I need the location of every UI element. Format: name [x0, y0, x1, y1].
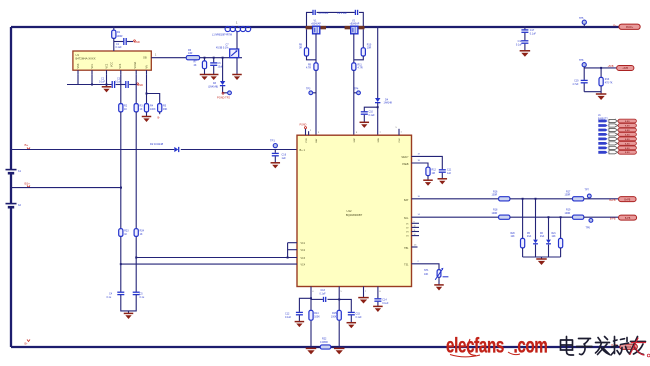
net label +5VB — [608, 65, 614, 68]
svg-text:B1+: B1+ — [25, 182, 31, 186]
ground below C14 — [373, 306, 383, 312]
svg-text:C19: C19 — [574, 79, 579, 82]
svg-text:R14: R14 — [314, 312, 319, 315]
resistor R12 1M — [426, 167, 437, 180]
wire inductor tap — [236, 26, 238, 49]
svg-text:C8 0.1uF: C8 0.1uF — [319, 12, 329, 15]
ground below pin GND — [358, 298, 369, 304]
ground below U1 — [102, 85, 112, 93]
svg-text:GND: GND — [134, 40, 140, 44]
U2 nc pin stubs — [406, 222, 419, 238]
svg-text:+5VB: +5VB — [608, 65, 614, 68]
svg-text:4.7R: 4.7R — [306, 67, 311, 70]
svg-text:B-PB: B-PB — [610, 218, 616, 221]
svg-text:TP3: TP3 — [306, 88, 311, 91]
svg-text:470-7K: 470-7K — [605, 82, 613, 85]
svg-text:0.1u: 0.1u — [107, 296, 112, 299]
testpoint TP4 — [354, 88, 361, 95]
svg-text:TP6: TP6 — [586, 227, 591, 230]
resistor R23 1K — [119, 229, 130, 237]
capacitor C15 0.1uF — [338, 298, 362, 322]
svg-text:R11: R11 — [358, 63, 363, 66]
battery B2 — [6, 203, 22, 207]
connector J1 block — [598, 113, 636, 154]
capacitor C9 0.1uF — [337, 10, 358, 15]
svg-text:B+PB: B+PB — [624, 199, 630, 201]
testpoint TP1 — [270, 139, 277, 148]
svg-text:0.1uF: 0.1uF — [285, 316, 292, 319]
U2 left pin B+ — [300, 148, 306, 152]
resistor R2 1K — [119, 75, 128, 112]
ground below C11 — [438, 179, 448, 185]
svg-text:VCC: VCC — [111, 62, 114, 67]
transistor V2 — [345, 19, 365, 33]
svg-text:49K: 49K — [163, 108, 168, 111]
capacitor C18 0.1uF — [516, 33, 529, 51]
svg-text:100R: 100R — [492, 212, 498, 215]
svg-text:9: 9 — [414, 222, 415, 224]
svg-text:1K: 1K — [140, 108, 143, 111]
svg-text:C12: C12 — [285, 312, 290, 315]
svg-text:R20: R20 — [511, 233, 516, 235]
svg-text:B-: B- — [158, 116, 161, 120]
diode D6 Z1A — [540, 217, 551, 257]
ground below C16 — [271, 163, 281, 169]
diode D2 1N4148 — [150, 142, 179, 152]
net label B+PB — [609, 199, 616, 202]
svg-text:12K: 12K — [552, 236, 557, 238]
svg-text:10: 10 — [414, 226, 416, 228]
ground network — [536, 259, 547, 265]
net label B+ — [25, 143, 31, 150]
U2 pin BAT wire — [404, 196, 499, 202]
connector P2 B-PB — [619, 215, 637, 220]
ground below R7 — [200, 75, 210, 81]
svg-text:B-BB: B-BB — [625, 134, 630, 136]
svg-text:TP8: TP8 — [579, 59, 584, 62]
wire R2 column — [120, 112, 122, 292]
testpoint TP3 — [306, 88, 316, 95]
svg-text:1K: 1K — [140, 233, 143, 236]
ground at rail left — [306, 348, 317, 354]
U1 pin stubs — [78, 70, 147, 75]
svg-text:VN: VN — [146, 65, 149, 69]
svg-text:B+ 1: B+ 1 — [300, 148, 306, 152]
resistor R21 12K — [552, 217, 563, 257]
capacitor C10 0.1uF — [361, 106, 379, 122]
svg-text:VC3: VC3 — [301, 258, 306, 260]
svg-text:CLK: CLK — [399, 138, 401, 143]
resistor R3 1K — [134, 75, 143, 112]
svg-text:TP7: TP7 — [585, 188, 590, 191]
net label B-PB — [610, 218, 616, 221]
capacitor C2 0.1uF — [99, 78, 125, 89]
svg-text:VDDA: VDDA — [134, 61, 137, 68]
svg-text:B-BB: B-BB — [625, 139, 630, 141]
U2 left pin names Y — [301, 243, 306, 266]
ground below C15 — [347, 323, 357, 329]
svg-text:PGND TP2: PGND TP2 — [217, 96, 230, 100]
wire U2 pin GND — [364, 287, 368, 298]
svg-text:R10: R10 — [367, 43, 372, 46]
svg-text:TP4: TP4 — [354, 88, 359, 91]
resistor R14 100K — [309, 310, 320, 320]
U2 pin SCL wire — [404, 214, 499, 220]
resistor R15 100K — [331, 310, 341, 320]
svg-text:0.1uF: 0.1uF — [116, 46, 123, 49]
svg-text:VSS: VSS — [77, 63, 80, 68]
svg-text:11: 11 — [414, 230, 416, 232]
svg-text:0.1uF: 0.1uF — [369, 114, 376, 117]
U1 pin names — [77, 57, 149, 69]
ground below R4 — [142, 117, 152, 123]
watermark chinese characters — [561, 337, 650, 357]
resistor R18 100R — [492, 209, 510, 220]
capacitor C17 0.1uF — [521, 26, 536, 35]
capacitor C13 0.1uF — [311, 289, 339, 302]
svg-text:BQ20Z90DBT: BQ20Z90DBT — [346, 213, 363, 217]
wire network bottom — [523, 257, 561, 259]
resistor R13 4.7K — [599, 68, 613, 94]
watermark elecfans.com — [446, 333, 547, 357]
svg-text:VC2: VC2 — [301, 250, 306, 252]
svg-text:1uF: 1uF — [282, 157, 287, 160]
connector P1 B+PB — [619, 197, 637, 202]
capacitor C16 — [272, 150, 287, 163]
svg-text:R23: R23 — [124, 230, 129, 233]
connector P4 5VB — [617, 66, 634, 71]
svg-text:SCL: SCL — [404, 217, 409, 220]
svg-text:100R: 100R — [492, 194, 498, 197]
svg-text:GND: GND — [137, 83, 143, 87]
wire VC1 VC2 — [287, 243, 297, 259]
svg-text:0.1uF: 0.1uF — [530, 32, 537, 35]
resistor R10 10R — [354, 29, 372, 60]
svg-text:100R: 100R — [565, 194, 571, 197]
capacitor C8 0.1uF — [313, 10, 329, 15]
svg-text:R24: R24 — [140, 230, 145, 233]
wire C19 to gnd — [584, 91, 601, 93]
svg-text:TS1: TS1 — [404, 264, 409, 267]
wire U1 decoupling row — [67, 75, 112, 86]
svg-text:0.1uF: 0.1uF — [99, 81, 106, 84]
svg-text:10R: 10R — [188, 52, 193, 55]
svg-text:100K: 100K — [331, 316, 337, 319]
diode D3 1N4148 — [208, 58, 225, 89]
capacitor C11 1uF — [439, 169, 452, 179]
ground below F1 — [232, 58, 242, 80]
svg-text:P+: P+ — [613, 23, 617, 27]
svg-text:SRN: SRN — [378, 137, 380, 142]
thermistor NT1 10K — [424, 268, 448, 280]
capacitor C6 10uF — [210, 58, 223, 75]
wire VC3 line — [136, 257, 297, 259]
U2 pin SDAI — [401, 154, 442, 170]
capacitor C14 0.1uF — [374, 287, 389, 307]
testpoint TP5 — [579, 17, 586, 27]
ground below C12 — [295, 322, 305, 328]
wire U2 pin VSS1 — [311, 287, 314, 348]
U2 top pin names — [306, 137, 401, 142]
svg-text:4.7uF: 4.7uF — [572, 83, 579, 86]
svg-text:PGND: PGND — [300, 123, 307, 126]
svg-text:C11: C11 — [447, 169, 452, 172]
svg-text:B-: B- — [25, 342, 28, 346]
transistor V1 — [306, 19, 326, 33]
svg-text:B-BB: B-BB — [625, 121, 630, 123]
svg-text:1K: 1K — [124, 233, 127, 236]
resistor R16 100R — [492, 190, 510, 201]
wire SCL mid — [510, 216, 573, 218]
svg-text:B-BB: B-BB — [625, 143, 630, 145]
wire caps to ground — [121, 295, 136, 311]
svg-text:B-BB: B-BB — [625, 125, 630, 127]
resistor R11 4.7R — [352, 34, 363, 135]
svg-text:1N4148: 1N4148 — [384, 102, 393, 105]
svg-text:NT1: NT1 — [424, 269, 429, 272]
resistor R17 100R — [565, 190, 584, 201]
svg-text:BAT: BAT — [404, 199, 409, 202]
svg-text:R16: R16 — [493, 190, 498, 193]
resistor R20 12K — [511, 199, 525, 257]
U2 pin stub CLK — [396, 127, 403, 135]
svg-text:2K: 2K — [194, 64, 197, 67]
ground below NT1 — [434, 277, 444, 290]
ground below C10 — [360, 122, 370, 128]
svg-text:R19: R19 — [566, 209, 571, 212]
U2 pin PAEB — [402, 160, 428, 167]
wire bottom rail B- — [11, 346, 620, 348]
svg-text:12K: 12K — [511, 236, 516, 238]
capacitor C5 0.1uF — [133, 292, 145, 299]
svg-text:VC3: VC3 — [119, 63, 122, 68]
svg-text:1uF: 1uF — [447, 172, 452, 175]
ground 5V sub — [596, 94, 607, 100]
svg-text:SRP: SRP — [354, 137, 356, 142]
svg-text:R18: R18 — [493, 209, 498, 212]
svg-text:0.1uF: 0.1uF — [356, 316, 363, 319]
svg-text:SDA1*: SDA1* — [401, 156, 408, 159]
svg-text:VC1: VC1 — [91, 63, 94, 68]
svg-text:VC4: VC4 — [301, 264, 306, 266]
resistor R1 100R — [112, 26, 123, 51]
U2 top pin numbers — [318, 132, 382, 134]
net label GND at C3 — [137, 83, 143, 87]
net label GND at C1 — [134, 40, 140, 44]
testpoint TP6 — [584, 217, 618, 229]
svg-text:100K: 100K — [150, 108, 156, 111]
svg-text:B4T2M4A-XXXX: B4T2M4A-XXXX — [76, 57, 96, 61]
connector P3 PACK+ — [619, 24, 640, 29]
wire top rail B+ — [11, 26, 620, 28]
svg-text:C10: C10 — [369, 111, 374, 114]
svg-text:.com: .com — [514, 333, 548, 357]
svg-text:R21: R21 — [552, 233, 557, 235]
svg-text:TB1: TB1 — [404, 247, 409, 250]
svg-text:R22: R22 — [322, 337, 327, 340]
resistor R24 1K — [134, 229, 145, 237]
svg-text:1M: 1M — [432, 172, 435, 175]
resistor R19 100R — [565, 209, 584, 220]
svg-text:U12: U12 — [346, 209, 352, 213]
resistor R7 2K — [193, 58, 206, 75]
svg-text:0.005R: 0.005R — [320, 341, 328, 344]
inductor L1 — [212, 21, 251, 37]
wire B1+ branch — [11, 187, 122, 189]
svg-text:PCK: PCK — [306, 137, 308, 142]
svg-text:R12: R12 — [432, 169, 437, 172]
wire 5V line — [584, 67, 616, 69]
capacitor C19 4.7uF — [572, 68, 587, 92]
svg-text:C17: C17 — [530, 29, 535, 32]
svg-text:100R: 100R — [117, 35, 123, 38]
ground below C6 — [209, 75, 219, 81]
svg-text:0.1uF: 0.1uF — [382, 302, 389, 305]
svg-text:12: 12 — [414, 234, 416, 236]
resistor R9 4.7R — [306, 34, 318, 135]
svg-text:R13: R13 — [605, 78, 610, 81]
diode D5 Z1A — [527, 199, 538, 257]
net label B1+ — [25, 182, 31, 188]
wire gate cap loop — [307, 12, 364, 27]
svg-text:B+: B+ — [25, 143, 29, 147]
U2 pin TB1 stub — [404, 244, 417, 250]
net label PGND TP2 — [217, 96, 230, 100]
svg-text:C14: C14 — [382, 298, 387, 301]
testpoint TP7 — [584, 188, 618, 199]
wire U2 pin VSS2 — [339, 287, 342, 348]
connector P5 PACK- — [620, 344, 638, 349]
battery B1 — [6, 169, 22, 173]
op-amp U2 body — [297, 135, 412, 286]
capacitor C3 0.1uF — [115, 78, 136, 89]
fuse F1 — [216, 43, 239, 57]
svg-text:B+PB: B+PB — [609, 199, 616, 202]
resistor R5 49K — [146, 93, 168, 115]
capacitor C4 0.1uF — [107, 292, 125, 299]
svg-text:D2 1N4148: D2 1N4148 — [150, 142, 164, 146]
svg-text:L1 NR6028T4R7M: L1 NR6028T4R7M — [212, 34, 232, 37]
svg-text:+5VB: +5VB — [622, 68, 628, 70]
svg-text:C16: C16 — [282, 154, 287, 157]
resistor R4 100K — [144, 75, 156, 117]
svg-text:OB: OB — [143, 57, 147, 60]
diode D4 1N4148 — [375, 26, 393, 135]
svg-text:45.5B 0.1%: 45.5B 0.1% — [216, 47, 229, 50]
U2 pin TS wire — [404, 261, 439, 270]
svg-text:B-BB: B-BB — [625, 148, 630, 150]
wire left rail — [10, 27, 12, 347]
capacitor C12 0.1uF — [285, 297, 312, 321]
net label P+ — [613, 23, 617, 27]
op-amp U1 body — [73, 51, 151, 70]
wire B+ to U2 — [11, 149, 297, 151]
svg-text:VC2: VC2 — [106, 63, 109, 68]
svg-text:PAEB: PAEB — [402, 163, 409, 166]
node PGND pin — [300, 123, 313, 135]
svg-text:R17: R17 — [566, 190, 571, 193]
svg-text:0.1u: 0.1u — [140, 296, 145, 299]
svg-text:TP5: TP5 — [579, 17, 584, 20]
svg-text:B-BB: B-BB — [625, 130, 630, 132]
resistor R8 0R — [299, 29, 316, 60]
svg-text:TP1: TP1 — [270, 139, 275, 143]
svg-text:C9 0.1uF: C9 0.1uF — [337, 12, 347, 15]
capacitor C1 0.1uF — [114, 38, 133, 49]
svg-text:VC1: VC1 — [301, 243, 306, 245]
ground below C4 C5 — [124, 311, 134, 319]
wire U1 output — [151, 54, 186, 58]
svg-text:elecfans: elecfans — [446, 333, 504, 357]
svg-text:0R: 0R — [299, 47, 302, 50]
testpoint TP2 — [222, 86, 231, 94]
ground below R12 — [423, 180, 433, 186]
svg-text:B-BB: B-BB — [625, 152, 630, 154]
wire R3 column — [135, 112, 137, 292]
svg-text:0.1uF: 0.1uF — [320, 292, 327, 295]
svg-text:10R: 10R — [367, 47, 372, 50]
testpoint TP8 — [579, 59, 586, 68]
wire VC4 line — [121, 263, 297, 265]
ground at rail right — [334, 348, 345, 354]
svg-text:1K: 1K — [124, 108, 127, 111]
svg-text:(1N4148): (1N4148) — [208, 86, 218, 89]
svg-text:U1: U1 — [76, 53, 80, 57]
net label B- — [25, 340, 31, 346]
ground below C18 — [520, 51, 531, 57]
svg-text:100K: 100K — [314, 316, 320, 319]
svg-text:4.7R: 4.7R — [358, 67, 363, 70]
wire BAT mid — [510, 198, 573, 200]
svg-text:C15: C15 — [356, 312, 361, 315]
svg-text:C13: C13 — [321, 289, 326, 292]
resistor R6 10R — [186, 49, 199, 60]
svg-text:100R: 100R — [565, 212, 571, 215]
svg-text:B-PB: B-PB — [625, 218, 631, 220]
svg-text:10K: 10K — [424, 273, 429, 276]
wire R6 to fuse — [200, 57, 242, 59]
svg-text:C18: C18 — [518, 40, 523, 43]
net label B- at R5 — [158, 116, 161, 120]
svg-text:0.1uF: 0.1uF — [516, 43, 523, 46]
resistor R22 0.005R sense — [320, 337, 331, 349]
net label B-PACK — [611, 344, 617, 347]
svg-text:R15: R15 — [332, 312, 337, 315]
